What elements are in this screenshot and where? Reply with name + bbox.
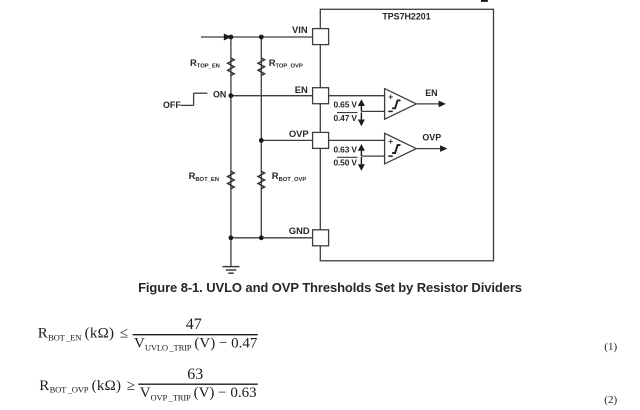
svg-text:0.63 V: 0.63 V	[334, 144, 358, 154]
svg-text:OVP: OVP	[422, 133, 441, 143]
svg-text:OVP: OVP	[289, 128, 309, 139]
svg-text:63: 63	[187, 366, 203, 383]
svg-text:OFF: OFF	[163, 100, 181, 110]
svg-text:(1): (1)	[604, 341, 617, 353]
svg-text:0.47 V: 0.47 V	[334, 113, 358, 123]
svg-text:47: 47	[186, 316, 202, 333]
svg-text:+: +	[388, 136, 393, 146]
svg-text:EN: EN	[295, 84, 308, 95]
svg-text:0.65 V: 0.65 V	[334, 100, 358, 110]
svg-text:0.50 V: 0.50 V	[334, 158, 358, 168]
svg-text:ON: ON	[213, 90, 226, 100]
svg-text:TPS7H2201: TPS7H2201	[382, 12, 430, 22]
svg-text:GND: GND	[289, 225, 310, 236]
svg-text:+: +	[388, 92, 393, 102]
svg-text:EN: EN	[425, 88, 437, 98]
svg-text:Figure 8-1. UVLO and OVP Thres: Figure 8-1. UVLO and OVP Thresholds Set …	[138, 280, 522, 295]
svg-text:VIN: VIN	[292, 24, 308, 35]
svg-text:(2): (2)	[604, 394, 617, 406]
